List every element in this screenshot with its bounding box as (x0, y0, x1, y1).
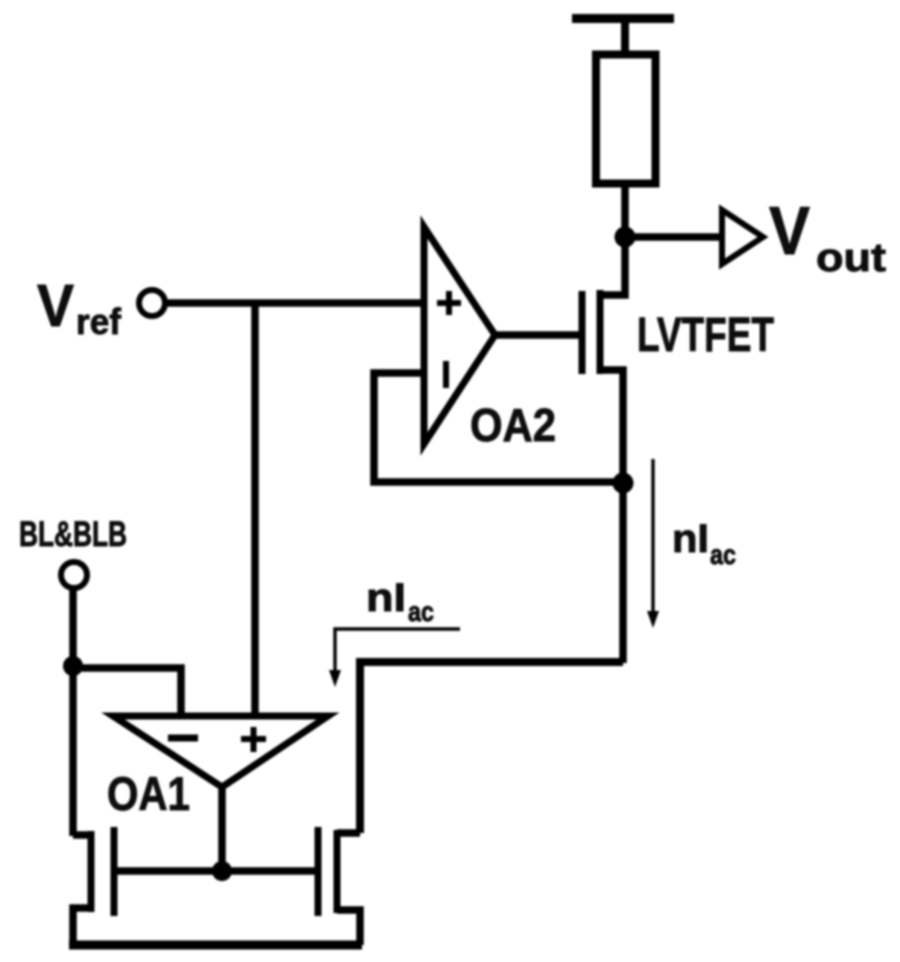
Vout arrow terminal (722, 210, 763, 264)
svg-text:ref: ref (76, 301, 122, 342)
transistor M1 gate bar (111, 827, 118, 916)
OA1 plus sign (241, 727, 266, 752)
wire M2 drain lead (337, 829, 360, 837)
wire OA1 output (218, 787, 226, 871)
gate wire M1 to M2 (114, 867, 318, 875)
wire M1 drain lead (73, 831, 91, 839)
transistor LVTFET channel bar (597, 290, 604, 374)
wire OA2 output to LVTFET gate (495, 331, 582, 339)
svg-text:ac: ac (710, 539, 736, 570)
wire BL&BLB down to M1 drain (69, 588, 77, 836)
resistor R1 (596, 55, 656, 184)
terminal BL&BLB (61, 562, 87, 588)
svg-text:ac: ac (408, 596, 434, 627)
transistor M2 channel bar (334, 830, 341, 913)
ground rail (69, 941, 362, 950)
svg-text:nI: nI (672, 517, 709, 561)
wire Vref to OA2 plus input (166, 299, 424, 307)
wire LVTFET source down to feedback node (600, 370, 623, 663)
node BL junction (63, 656, 83, 676)
node Vout junction (615, 227, 636, 248)
label BL&BLB (19, 515, 127, 554)
wire M1 source lead (73, 908, 91, 945)
wire node to LVTFET drain (600, 237, 625, 295)
arrow nIac mid (335, 629, 460, 672)
svg-text:OA1: OA1 (107, 767, 190, 820)
arrow nIac right (651, 459, 654, 614)
OA2 minus sign (443, 361, 449, 388)
label Vout (769, 193, 886, 280)
label OA2 (470, 399, 556, 451)
terminal Vref (139, 290, 165, 316)
svg-text:nI: nI (366, 576, 406, 620)
svg-text:V: V (769, 193, 810, 269)
wire node to Vout arrow (625, 233, 722, 241)
label nIac mid (366, 576, 434, 627)
label Vref (37, 273, 122, 342)
VDD stem wire (621, 20, 629, 55)
svg-text:out: out (816, 236, 886, 280)
label LVTFET (637, 309, 774, 362)
op-amp OA1 (113, 716, 328, 787)
wire BL branch to OA1 minus input (73, 668, 181, 716)
OA1 minus sign (168, 735, 198, 742)
wire Vref branch to OA1 plus input (251, 303, 259, 716)
svg-text:BL&BLB: BL&BLB (19, 515, 127, 554)
wire M2 source lead (337, 910, 360, 945)
transistor M1 channel bar (88, 831, 95, 912)
wire main to M2 drain (360, 662, 623, 833)
label OA1 (107, 767, 190, 820)
transistor LVTFET gate bar (579, 291, 586, 374)
svg-text:OA2: OA2 (470, 399, 556, 451)
node gate junction (212, 861, 232, 881)
feedback wire OA2 minus input (374, 373, 623, 482)
label nIac right (672, 517, 736, 570)
transistor M2 gate bar (315, 827, 322, 916)
node feedback junction (613, 473, 634, 494)
svg-text:V: V (37, 273, 74, 339)
VDD supply bar (572, 14, 674, 23)
OA2 plus sign (437, 291, 461, 315)
op-amp OA2 (424, 227, 495, 444)
wire resistor to Vout node (621, 183, 629, 237)
svg-text:LVTFET: LVTFET (637, 309, 774, 362)
